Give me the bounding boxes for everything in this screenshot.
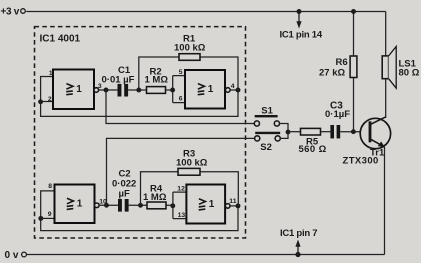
gate IC1b output bubble pin 4 — [226, 83, 235, 92]
svg-text:1: 1 — [77, 199, 83, 210]
switch S1 — [254, 106, 279, 127]
gate IC1c output bubble pin 10 — [95, 199, 107, 208]
resistor R1 feedback branch — [139, 34, 238, 91]
IC1 pin 14 pointer — [280, 9, 323, 41]
wire rail to LS1 — [385, 12, 387, 56]
svg-text:13: 13 — [178, 212, 186, 219]
resistor R5 — [299, 128, 327, 155]
resistor R6 branch — [319, 12, 357, 132]
pin 12 label — [177, 186, 185, 193]
switch S2 — [255, 133, 281, 153]
gate IC1b symbol — [198, 84, 205, 95]
junction S merge node — [286, 130, 291, 135]
wire emitter to 0V rail — [384, 147, 386, 255]
svg-text:11: 11 — [229, 198, 236, 205]
wire gate3 output to C2 — [99, 204, 118, 206]
wire LS1 to collector — [385, 79, 387, 118]
wire R2 to gate2 inputs fork — [166, 76, 186, 103]
svg-text:0 v: 0 v — [5, 250, 19, 261]
svg-text:1: 1 — [76, 84, 82, 95]
transistor Tr1 ZTX300 — [343, 117, 391, 166]
svg-text:IC1 pin 14: IC1 pin 14 — [280, 30, 323, 41]
wires S1/S2 to merge node — [280, 124, 289, 139]
svg-text:ZTX300: ZTX300 — [343, 155, 379, 166]
gate IC1a symbol — [66, 84, 73, 95]
svg-text:8: 8 — [48, 183, 52, 190]
NOR gate IC1d box — [186, 185, 225, 224]
svg-text:5: 5 — [179, 69, 183, 76]
pin 9 label — [48, 211, 52, 218]
gate IC1a output bubble pin 3 — [94, 83, 102, 92]
pin 13 label — [178, 212, 186, 219]
NOR gate IC1c box — [55, 185, 95, 224]
wire merge to R5 — [288, 131, 301, 133]
svg-text:1: 1 — [208, 84, 214, 95]
svg-text:0·1µF: 0·1µF — [325, 109, 350, 120]
svg-text:IC1 4001: IC1 4001 — [40, 34, 81, 45]
junction gate3 output node — [104, 203, 109, 208]
svg-text:2: 2 — [48, 96, 52, 103]
pin 8 label — [48, 183, 52, 190]
svg-text:1 MΩ: 1 MΩ — [145, 74, 169, 85]
pin 2 label — [48, 96, 52, 103]
svg-text:27 kΩ: 27 kΩ — [319, 68, 345, 79]
wire R4 to gate4 inputs fork — [166, 192, 186, 219]
+3V rail wire — [26, 11, 386, 13]
junction gate3 pin9 — [38, 216, 43, 221]
resistor R2 — [145, 67, 169, 94]
IC1 package outline (dashed) — [35, 27, 246, 238]
svg-text:4: 4 — [231, 83, 235, 90]
wire R5 to C3 — [321, 131, 331, 133]
NOR gate IC1b box — [185, 70, 225, 109]
svg-text:µF: µF — [119, 189, 130, 200]
junction gate2 input fork — [170, 88, 175, 93]
wire C1 to R2 — [128, 89, 146, 91]
capacitor C3 — [325, 101, 350, 139]
node X junction (C1/R2/R1) — [136, 88, 141, 93]
svg-text:6: 6 — [179, 96, 183, 103]
svg-text:12: 12 — [177, 186, 185, 193]
NOR gate IC1a box — [53, 70, 94, 110]
svg-text:100 kΩ: 100 kΩ — [176, 157, 208, 168]
wire gate3 output to S2 — [107, 138, 255, 205]
wire gate3 inputs / feedback from gate4 output — [41, 191, 238, 231]
gate IC1c symbol — [67, 198, 74, 209]
resistor R4 — [143, 184, 167, 209]
gate IC1d symbol — [199, 199, 206, 210]
0V terminal — [5, 250, 27, 261]
IC1 pin 7 pointer — [280, 228, 317, 257]
svg-text:9: 9 — [48, 211, 52, 218]
+3V terminal — [1, 6, 26, 17]
svg-text:1 MΩ: 1 MΩ — [143, 192, 167, 203]
pin 6 label — [179, 96, 183, 103]
loudspeaker LS1 — [382, 47, 420, 89]
resistor R3 feedback branch — [141, 149, 239, 206]
0V rail wire — [27, 254, 385, 256]
junction gate2 output node — [236, 88, 241, 93]
gate IC1d output bubble pin 11 — [225, 198, 236, 208]
svg-text:100 kΩ: 100 kΩ — [174, 42, 206, 53]
svg-text:560 Ω: 560 Ω — [299, 144, 327, 155]
label IC1 4001 — [40, 34, 81, 45]
svg-text:0·01 µF: 0·01 µF — [102, 74, 135, 85]
wire C3 to base node — [340, 131, 360, 133]
junction gate1 pin2 — [38, 99, 43, 104]
capacitor C1 — [102, 65, 135, 97]
wire gate1 inputs / feedback from gate2 output — [41, 77, 238, 117]
wire gate4 output to junction — [230, 205, 238, 207]
svg-text:R6: R6 — [336, 57, 348, 68]
junction gate4 output node — [236, 203, 241, 208]
pin 1 label — [49, 70, 53, 77]
wire gate1 output to C1 — [99, 89, 118, 91]
svg-text:S2: S2 — [260, 142, 272, 153]
node Y junction (C2/R4/R3) — [138, 203, 143, 208]
capacitor C2 — [112, 168, 136, 211]
junction gate4 input fork — [170, 203, 175, 208]
junction R6 top on rail — [351, 9, 356, 14]
svg-text:1: 1 — [209, 199, 215, 210]
svg-text:80 Ω: 80 Ω — [399, 68, 420, 79]
wire gate1 output to S1 — [106, 90, 254, 124]
junction gate1 output node — [104, 88, 109, 93]
wire gate2 output to junction — [230, 89, 238, 91]
svg-text:IC1 pin 7: IC1 pin 7 — [280, 228, 317, 239]
svg-text:S1: S1 — [261, 106, 273, 117]
pin 5 label — [179, 69, 183, 76]
junction base node — [351, 129, 356, 134]
wire C2 to R4 — [129, 204, 147, 206]
svg-text:+3 v: +3 v — [1, 6, 20, 17]
